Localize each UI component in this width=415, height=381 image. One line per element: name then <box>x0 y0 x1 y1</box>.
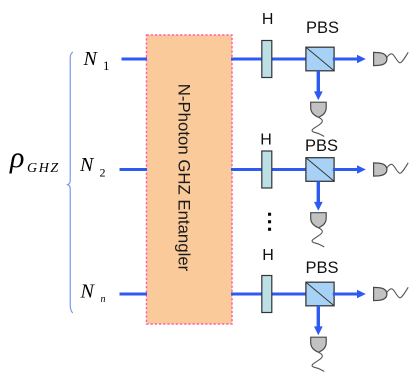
svg-text:1: 1 <box>103 58 110 73</box>
svg-text:2: 2 <box>100 166 106 180</box>
svg-text:N: N <box>80 280 96 302</box>
svg-text:PBS: PBS <box>305 137 338 155</box>
svg-text:N-Photon GHZ Entangler: N-Photon GHZ Entangler <box>175 84 194 272</box>
svg-text:H: H <box>262 11 274 28</box>
svg-text:H: H <box>262 247 274 264</box>
svg-text:N: N <box>79 154 95 176</box>
svg-text:ρ: ρ <box>9 141 24 174</box>
svg-text:PBS: PBS <box>305 259 338 277</box>
svg-text:H: H <box>260 132 272 149</box>
svg-text:GHZ: GHZ <box>27 161 60 176</box>
svg-text:n: n <box>101 294 106 305</box>
svg-text:PBS: PBS <box>306 19 339 37</box>
svg-text:N: N <box>83 48 99 70</box>
